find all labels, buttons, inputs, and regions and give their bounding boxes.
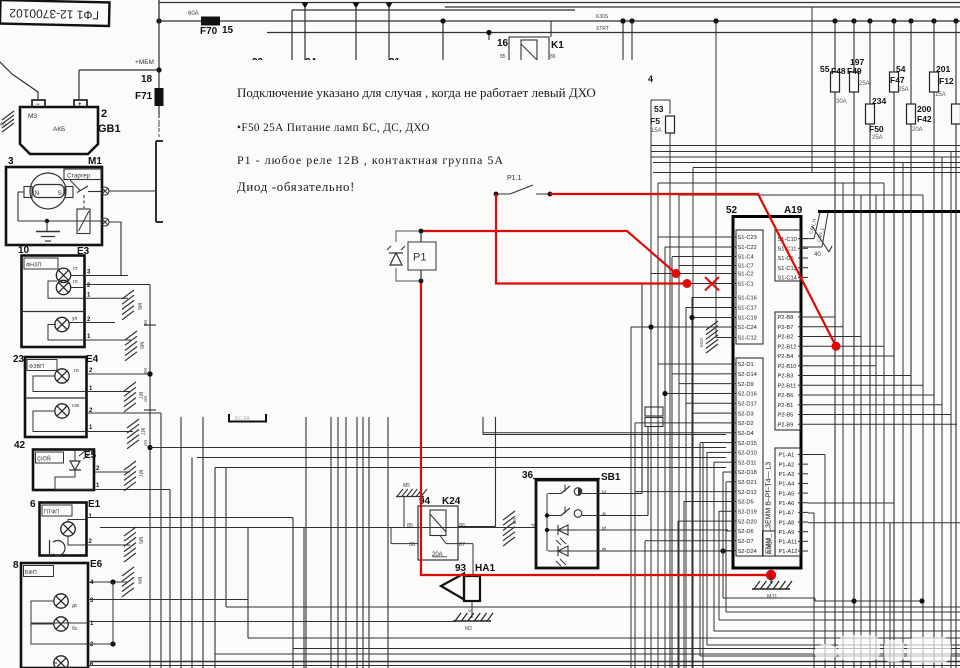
svg-text:Р1: Р1 <box>413 252 426 264</box>
svg-text:М1: М1 <box>88 156 102 167</box>
svg-text:F71: F71 <box>135 91 153 102</box>
svg-text:М10: М10 <box>699 338 704 347</box>
svg-text:5: 5 <box>600 527 606 530</box>
svg-text:201: 201 <box>936 64 950 74</box>
svg-text:БФП: БФП <box>25 570 37 576</box>
svg-text:87: 87 <box>459 542 465 548</box>
svg-text:М5: М5 <box>403 483 410 489</box>
svg-text:S2-D10: S2-D10 <box>738 451 757 457</box>
svg-text:ФЗВП: ФЗВП <box>29 364 44 370</box>
svg-text:S2-D4: S2-D4 <box>738 431 754 437</box>
svg-text:S2-D21: S2-D21 <box>738 480 757 486</box>
svg-text:S1-C19: S1-C19 <box>738 316 757 322</box>
svg-text:S2-D15: S2-D15 <box>738 441 757 447</box>
svg-text:P1-A9: P1-A9 <box>779 530 795 536</box>
svg-text:НА1: НА1 <box>475 563 495 574</box>
svg-text:P2-B10: P2-B10 <box>778 364 797 370</box>
svg-text:S2-D19: S2-D19 <box>738 510 757 516</box>
svg-text:S1-C23: S1-C23 <box>738 235 757 241</box>
svg-text:P2-B5: P2-B5 <box>778 413 794 419</box>
svg-text:S2-D11: S2-D11 <box>738 460 757 466</box>
svg-text:дс: дс <box>72 603 78 609</box>
svg-text:18: 18 <box>141 74 153 85</box>
svg-text:S2-D24: S2-D24 <box>738 549 757 555</box>
svg-text:S2-D5: S2-D5 <box>738 500 754 506</box>
svg-text:6: 6 <box>600 548 606 551</box>
svg-text:Е1: Е1 <box>88 499 101 510</box>
svg-text:60A: 60A <box>188 11 199 17</box>
svg-text:P1-A1: P1-A1 <box>779 453 795 459</box>
svg-text:25A: 25A <box>872 135 883 141</box>
svg-text:P2-B2: P2-B2 <box>778 335 794 341</box>
svg-text:S1-C14: S1-C14 <box>778 276 797 282</box>
svg-text:ПТФП: ПТФП <box>44 510 59 516</box>
svg-text:SB1: SB1 <box>601 472 621 483</box>
svg-text:ст: ст <box>73 266 79 272</box>
svg-text:F5: F5 <box>650 116 660 126</box>
svg-text:P1-A6: P1-A6 <box>779 501 795 507</box>
svg-text:P2-B8: P2-B8 <box>778 315 794 321</box>
svg-text:М6: М6 <box>136 303 142 310</box>
svg-text:F47: F47 <box>890 75 905 85</box>
svg-text:4: 4 <box>648 74 653 84</box>
svg-text:ГФ1 12-3700102: ГФ1 12-3700102 <box>9 6 99 22</box>
svg-text:P1-A4: P1-A4 <box>779 482 795 488</box>
svg-text:23: 23 <box>13 354 25 365</box>
svg-text:Е3: Е3 <box>77 246 90 257</box>
svg-text:6: 6 <box>30 499 36 510</box>
svg-text:P1-A12: P1-A12 <box>779 549 798 555</box>
svg-text:М7: М7 <box>143 396 148 403</box>
svg-text:Е4: Е4 <box>86 354 99 365</box>
svg-text:М: М <box>468 608 471 613</box>
svg-text:P2-B7: P2-B7 <box>778 325 794 331</box>
svg-text:ФНЗП: ФНЗП <box>26 263 41 269</box>
svg-text:Подключение указано для случая: Подключение указано для случая , когда н… <box>237 85 596 100</box>
svg-text:F12: F12 <box>939 76 954 86</box>
svg-text:30: 30 <box>409 542 415 548</box>
svg-text:М7: М7 <box>139 428 145 435</box>
svg-text:S1-C1: S1-C1 <box>738 282 754 288</box>
svg-text:−: − <box>36 102 40 108</box>
svg-text:S2-D17: S2-D17 <box>738 401 757 407</box>
svg-text:P2-B6: P2-B6 <box>778 393 794 399</box>
svg-text:S1-C7: S1-C7 <box>738 264 754 270</box>
svg-text:P1-A7: P1-A7 <box>779 511 795 517</box>
svg-text:S1-C2: S1-C2 <box>738 272 754 278</box>
svg-text:М7: М7 <box>143 440 148 447</box>
svg-text:M11: M11 <box>767 594 777 600</box>
svg-text:3: 3 <box>600 490 606 493</box>
svg-text:K30S: K30S <box>596 14 609 20</box>
svg-text:S2-D18: S2-D18 <box>738 470 757 476</box>
svg-text:P2-B3: P2-B3 <box>778 374 794 380</box>
svg-text:уп: уп <box>72 316 78 322</box>
svg-text:го: го <box>74 368 79 374</box>
svg-text:F42: F42 <box>917 114 932 124</box>
svg-text:М8: М8 <box>512 518 517 525</box>
svg-text:S1-C17: S1-C17 <box>738 306 757 312</box>
svg-text:8: 8 <box>13 560 19 571</box>
svg-text:S2-D6: S2-D6 <box>738 529 754 535</box>
svg-text:F49: F49 <box>847 66 862 76</box>
svg-text:F50: F50 <box>869 124 884 134</box>
svg-text:Е5: Е5 <box>84 450 97 461</box>
svg-text:40: 40 <box>814 252 821 258</box>
svg-text:М4: М4 <box>136 577 142 584</box>
svg-text:S1-C4: S1-C4 <box>738 255 754 261</box>
svg-text:20A: 20A <box>912 127 923 133</box>
svg-text:S2-D12: S2-D12 <box>738 490 757 496</box>
svg-text:GB1: GB1 <box>98 123 121 135</box>
svg-text:БС-9А: БС-9А <box>235 416 250 422</box>
svg-text:АКБ: АКБ <box>53 126 65 133</box>
svg-text:P1-A11: P1-A11 <box>779 540 798 546</box>
svg-text:P1-A3: P1-A3 <box>779 472 795 478</box>
svg-text:S2-D2: S2-D2 <box>738 421 754 427</box>
svg-text:Диод -обязательно!: Диод -обязательно! <box>237 180 355 194</box>
svg-text:М5: М5 <box>137 537 143 544</box>
svg-text:P1-A5: P1-A5 <box>779 491 795 497</box>
svg-text:бс: бс <box>72 626 78 632</box>
svg-text:85: 85 <box>500 54 506 60</box>
svg-text:+МБМ: +МБМ <box>135 59 154 66</box>
svg-text:15A: 15A <box>935 92 946 98</box>
svg-text:го: го <box>73 279 78 285</box>
svg-text:S2-D14: S2-D14 <box>738 372 757 378</box>
svg-text:S2-D20: S2-D20 <box>738 519 757 525</box>
svg-text:85: 85 <box>407 523 413 529</box>
svg-text:М7: М7 <box>137 470 143 477</box>
svg-text:М7: М7 <box>137 392 143 399</box>
svg-text:K1: K1 <box>551 40 564 51</box>
svg-text:K24: K24 <box>442 496 461 507</box>
svg-text:P1-A2: P1-A2 <box>779 462 795 468</box>
svg-text:30A: 30A <box>836 99 847 105</box>
svg-text:16: 16 <box>497 38 509 49</box>
svg-text:15A: 15A <box>651 128 662 134</box>
svg-text:53: 53 <box>654 104 664 114</box>
svg-text:52: 52 <box>726 205 738 216</box>
svg-text:P1.1: P1.1 <box>507 175 522 182</box>
svg-text:P2-B4: P2-B4 <box>778 354 794 360</box>
svg-text:S1-C24: S1-C24 <box>738 325 757 331</box>
svg-text:10: 10 <box>18 245 30 256</box>
svg-text:сзх: сзх <box>72 403 80 409</box>
svg-text:P2-B12: P2-B12 <box>778 344 797 350</box>
svg-text:S1-C22: S1-C22 <box>738 245 757 251</box>
svg-text:Стартер: Стартер <box>67 174 91 180</box>
svg-text:М6: М6 <box>143 320 148 327</box>
svg-text:86: 86 <box>550 54 556 60</box>
svg-text:S1-C13: S1-C13 <box>778 266 797 272</box>
svg-text:М6: М6 <box>138 342 144 349</box>
svg-text:N: N <box>35 190 40 197</box>
svg-text:200: 200 <box>917 104 931 114</box>
svg-text:54: 54 <box>896 64 906 74</box>
svg-text:S2-D3: S2-D3 <box>738 411 754 417</box>
svg-text:S2-D1: S2-D1 <box>738 362 754 368</box>
svg-text:P2-B1: P2-B1 <box>778 403 794 409</box>
svg-text:ÇIÖÑ: ÇIÖÑ <box>37 456 51 463</box>
svg-text:42: 42 <box>14 440 26 451</box>
svg-text:P1-A8: P1-A8 <box>779 520 795 526</box>
svg-text:3: 3 <box>8 156 14 167</box>
svg-text:М3: М3 <box>28 113 37 120</box>
svg-text:36: 36 <box>522 470 534 481</box>
svg-text:Е6: Е6 <box>90 559 103 570</box>
svg-text:55: 55 <box>820 64 830 74</box>
svg-text:40: 40 <box>0 122 6 128</box>
svg-text:S: S <box>58 190 63 197</box>
svg-text:S1-C16: S1-C16 <box>738 296 757 302</box>
svg-text:M2: M2 <box>465 626 472 632</box>
svg-text:рг: рг <box>531 524 536 529</box>
svg-text:25A: 25A <box>859 81 870 87</box>
svg-text:P2-B11: P2-B11 <box>778 383 797 389</box>
svg-text:S1-C12: S1-C12 <box>738 336 757 342</box>
svg-text:Pl-A10: Pl-A10 <box>768 539 774 554</box>
svg-text:S2-D16: S2-D16 <box>738 392 757 398</box>
svg-text:A19: A19 <box>784 205 803 216</box>
svg-text:•F50 25А Питание ламп БС, ДС,: •F50 25А Питание ламп БС, ДС, ДХО <box>237 122 430 134</box>
svg-text:25A: 25A <box>898 87 909 93</box>
svg-text:F70: F70 <box>200 26 218 37</box>
svg-text:Р1 - любое реле 12В , контакт: Р1 - любое реле 12В , контактная группа … <box>237 153 504 167</box>
svg-text:S2-D7: S2-D7 <box>738 539 754 545</box>
svg-text:+: + <box>78 102 82 108</box>
svg-text:F48: F48 <box>831 66 846 76</box>
svg-text:234: 234 <box>872 96 886 106</box>
svg-text:4: 4 <box>600 512 606 515</box>
svg-text:15: 15 <box>222 25 234 36</box>
svg-text:STRT: STRT <box>596 26 609 32</box>
svg-text:S2-D9: S2-D9 <box>738 382 754 388</box>
svg-text:P2-B9: P2-B9 <box>778 422 794 428</box>
svg-text:М6: М6 <box>143 368 148 375</box>
svg-text:2: 2 <box>101 108 107 120</box>
